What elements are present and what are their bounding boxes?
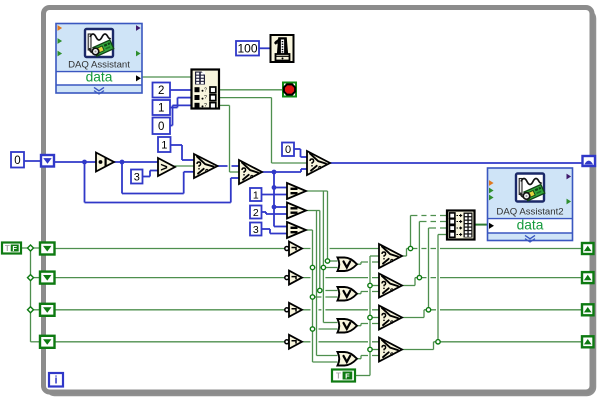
svg-text:data: data: [517, 218, 544, 233]
svg-text:T: T: [336, 372, 341, 381]
svg-text:F: F: [345, 372, 350, 381]
svg-text:2: 2: [253, 207, 259, 219]
svg-text:100: 100: [237, 42, 257, 56]
svg-text:?: ?: [204, 103, 207, 109]
svg-text:>: >: [160, 161, 167, 175]
svg-text:1: 1: [158, 103, 164, 115]
svg-text:3: 3: [134, 171, 140, 183]
svg-text:0: 0: [158, 121, 164, 133]
svg-text:3: 3: [253, 224, 259, 236]
svg-text:1: 1: [253, 189, 259, 201]
svg-text:DAQ Assistant2: DAQ Assistant2: [496, 206, 563, 217]
svg-text:0: 0: [285, 144, 291, 156]
svg-text:T: T: [5, 244, 10, 253]
svg-text:data: data: [86, 70, 113, 85]
svg-text:0: 0: [14, 155, 20, 167]
svg-text:?: ?: [204, 95, 207, 101]
svg-text:i: i: [54, 375, 57, 387]
svg-text:1: 1: [161, 139, 167, 151]
svg-text:?: ?: [204, 87, 207, 93]
svg-text:2: 2: [158, 85, 164, 97]
svg-text:F: F: [12, 244, 17, 253]
